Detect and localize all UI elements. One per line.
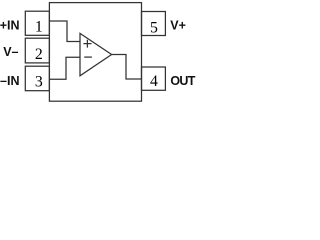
svg-text:V–: V– xyxy=(3,45,18,59)
svg-text:+IN: +IN xyxy=(0,19,20,33)
plus sign noninverting input xyxy=(83,40,91,48)
svg-text:–IN: –IN xyxy=(0,74,19,88)
svg-text:5: 5 xyxy=(150,19,158,36)
pin 2 box xyxy=(25,38,49,63)
wire op-amp output to OUT pin4 xyxy=(112,55,142,80)
wire -IN pin3 to op-amp inverting input xyxy=(49,57,79,79)
IC body outline xyxy=(49,3,141,102)
svg-text:V+: V+ xyxy=(170,19,186,33)
minus sign inverting input xyxy=(84,56,92,58)
svg-text:3: 3 xyxy=(35,73,43,90)
pin 1 box xyxy=(25,11,49,35)
svg-text:1: 1 xyxy=(35,18,43,35)
svg-text:2: 2 xyxy=(35,46,43,63)
wire +IN pin1 to op-amp noninverting input xyxy=(49,21,79,42)
pin 5 box xyxy=(142,12,166,36)
op-amp U1 triangle xyxy=(80,33,112,75)
pin 3 box xyxy=(25,66,49,91)
pin 4 box xyxy=(142,67,166,90)
svg-text:OUT: OUT xyxy=(170,74,195,88)
svg-text:4: 4 xyxy=(150,73,158,90)
